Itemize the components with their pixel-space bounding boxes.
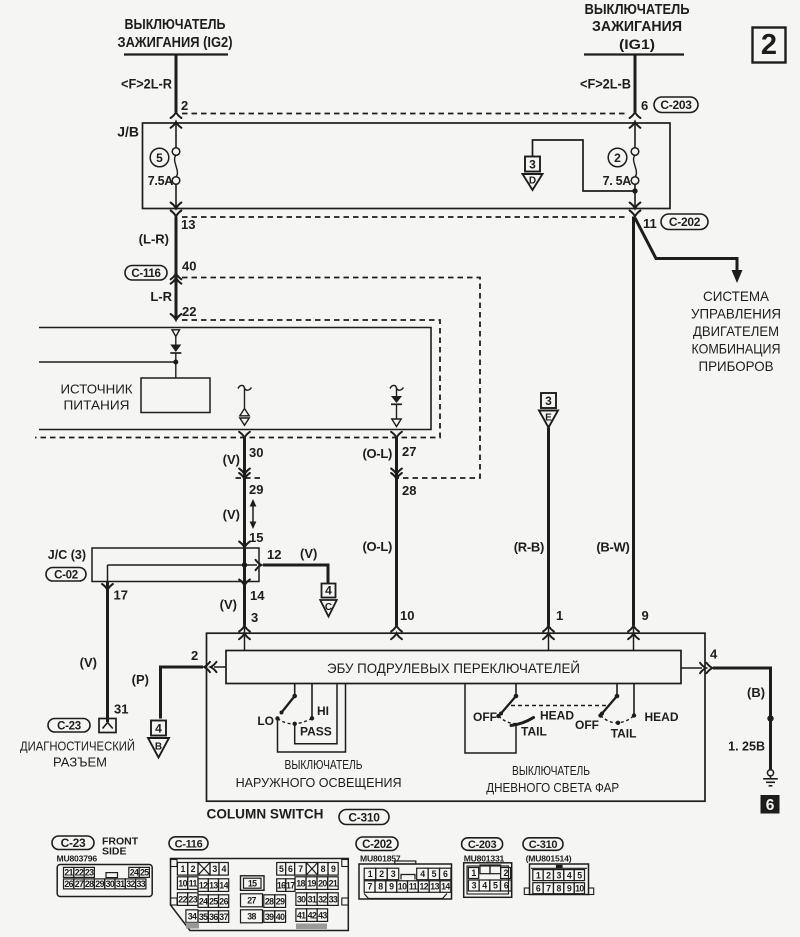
dimmer switch pivot (292, 684, 297, 699)
wire O-L pin27 down to column switch (395, 438, 398, 626)
svg-text:4: 4 (710, 647, 718, 662)
svg-text:33: 33 (329, 894, 338, 904)
label (B) (747, 685, 765, 700)
pin 15 label (249, 530, 263, 545)
connector C-203 tag top (654, 97, 698, 113)
arrow wire 30 start (239, 432, 250, 438)
svg-text:C-116: C-116 (131, 268, 160, 280)
svg-text:3: 3 (472, 881, 477, 891)
svg-text:33: 33 (137, 879, 146, 889)
arrow wire 27 start (391, 432, 402, 438)
connector C-116 tag (125, 266, 167, 281)
svg-text:2: 2 (181, 98, 188, 113)
pin 13 label (181, 217, 195, 232)
svg-text:PASS: PASS (300, 725, 332, 739)
svg-text:2: 2 (614, 151, 621, 165)
switch 1 dashed arc (499, 716, 534, 724)
wire L-R segment 13 to 40 (175, 217, 178, 321)
svg-text:13: 13 (209, 880, 218, 890)
connector C-203 body (464, 863, 512, 898)
pin 9 label (642, 608, 649, 623)
svg-text:(MU801514): (MU801514) (526, 854, 572, 864)
svg-text:<F>2L-R: <F>2L-R (121, 77, 172, 92)
svg-text:5: 5 (493, 881, 498, 891)
OFF contact 1 (496, 714, 500, 718)
svg-text:(R-B): (R-B) (514, 540, 544, 555)
junction dot ground wire (767, 715, 773, 721)
pin 30 label (249, 445, 263, 460)
svg-text:(B): (B) (747, 685, 765, 700)
pin 2 label (191, 648, 198, 663)
svg-text:<F>2L-B: <F>2L-B (580, 77, 631, 92)
label (V) on wire 12 (300, 546, 317, 561)
svg-text:4: 4 (222, 864, 227, 874)
internal output V terminal (238, 385, 252, 425)
svg-text:4: 4 (325, 583, 332, 597)
svg-text:ВЫКЛЮЧАТЕЛЬ: ВЫКЛЮЧАТЕЛЬ (585, 2, 690, 18)
pin 22 label (182, 304, 196, 319)
svg-text:32: 32 (126, 879, 135, 889)
fuse 5 element 7.5A (148, 123, 180, 209)
svg-text:15: 15 (248, 878, 257, 888)
svg-text:29: 29 (276, 896, 285, 906)
double arrow symbol (250, 499, 257, 529)
svg-text:14: 14 (219, 880, 228, 890)
svg-text:ЗАЖИГАНИЯ: ЗАЖИГАНИЯ (592, 19, 682, 35)
connector arrow open triangle on wire 22 (172, 330, 180, 337)
lighting switch 2 pivot (615, 684, 620, 699)
svg-text:29: 29 (249, 482, 263, 497)
svg-text:HEAD: HEAD (645, 710, 679, 724)
pin 4 label (710, 647, 718, 662)
svg-text:3: 3 (391, 869, 396, 879)
lighting switch label (236, 757, 402, 790)
svg-text:TAIL: TAIL (521, 725, 547, 739)
label (V) upper (223, 452, 240, 467)
svg-text:C-203: C-203 (660, 98, 692, 112)
svg-text:1: 1 (180, 864, 185, 874)
dashed connector line C-203 level (182, 113, 628, 115)
branch wire to arrow 3D (533, 140, 636, 191)
diagnostic connector label (20, 739, 135, 770)
svg-text:SIDE: SIDE (102, 846, 127, 858)
svg-text:9: 9 (389, 882, 394, 892)
svg-text:7: 7 (546, 883, 551, 893)
connector arrows at C-116 (171, 273, 182, 283)
page arrow 3-E (539, 393, 558, 428)
svg-text:30: 30 (106, 879, 115, 889)
svg-text:(V): (V) (223, 452, 240, 467)
svg-text:43: 43 (318, 910, 327, 920)
connector C-23 body (57, 865, 152, 897)
diagnostic connector symbol (99, 719, 116, 733)
svg-text:8: 8 (378, 882, 383, 892)
svg-text:L-R: L-R (150, 289, 172, 304)
power source internal box (141, 378, 210, 413)
page arrow 3-D (523, 157, 543, 191)
svg-text:15: 15 (249, 530, 263, 545)
J/C (3) label (48, 548, 86, 562)
ECU label (327, 659, 580, 676)
svg-text:28: 28 (265, 896, 274, 906)
branch wire to engine management system (635, 218, 743, 283)
diode D1 (170, 337, 181, 379)
svg-text:25: 25 (209, 896, 218, 906)
PASS return path (295, 684, 337, 744)
connector C-23 view tag (52, 836, 94, 850)
part number MU803796 (57, 854, 98, 864)
svg-text:24: 24 (130, 868, 139, 878)
pin 31 label (114, 702, 128, 717)
svg-text:34: 34 (188, 911, 197, 921)
svg-text:J/C (3): J/C (3) (48, 548, 86, 562)
svg-text:32: 32 (318, 894, 327, 904)
svg-text:1: 1 (536, 870, 541, 880)
dimmer switch lever (280, 696, 295, 715)
svg-text:(P): (P) (132, 672, 149, 687)
svg-text:30: 30 (249, 445, 263, 460)
svg-text:40: 40 (182, 259, 196, 274)
arrow wire 14 leaving J/C (239, 580, 250, 586)
svg-text:ДВИГАТЕЛЕМ: ДВИГАТЕЛЕМ (693, 324, 779, 339)
svg-text:HI: HI (317, 704, 329, 718)
svg-text:6: 6 (536, 883, 541, 893)
HEAD label 2 (645, 710, 679, 724)
connector C-202 view tag (356, 837, 398, 851)
pin 6 label (641, 98, 648, 113)
PASS label (300, 725, 332, 739)
svg-text:ВЫКЛЮЧАТЕЛЬ: ВЫКЛЮЧАТЕЛЬ (125, 17, 226, 33)
label (L-R) (139, 232, 169, 247)
svg-text:13: 13 (430, 882, 439, 892)
power source label (61, 382, 133, 413)
pin 11 label (643, 216, 657, 231)
part number MU801331 (464, 854, 505, 864)
svg-text:37: 37 (219, 912, 228, 922)
pin 10 label (400, 608, 414, 623)
svg-text:C-23: C-23 (57, 720, 81, 732)
lighting switch 2 lever (600, 696, 617, 716)
pin 29 label (249, 482, 263, 497)
svg-text:28: 28 (85, 879, 94, 889)
TAIL bridge thick arc (511, 718, 534, 726)
wire B-W down to pin 9 (632, 217, 635, 651)
svg-text:22: 22 (182, 304, 196, 319)
wire V pin14 to pin3 (243, 581, 246, 651)
svg-text:(V): (V) (223, 507, 240, 522)
svg-text:C-310: C-310 (348, 810, 380, 824)
svg-text:29: 29 (95, 879, 104, 889)
wire 2L-R from IG2 (121, 55, 176, 112)
svg-text:2: 2 (191, 648, 198, 663)
svg-text:36: 36 (209, 912, 218, 922)
OFF contact 2 (598, 713, 602, 717)
outer dashed harness box (182, 278, 480, 479)
svg-text:10: 10 (398, 882, 407, 892)
svg-text:31: 31 (308, 894, 317, 904)
svg-text:2: 2 (546, 870, 551, 880)
ground page ref 6 black box (761, 795, 780, 814)
svg-text:TAIL: TAIL (611, 727, 637, 741)
connector C-310 body (524, 864, 593, 895)
svg-text:23: 23 (85, 868, 94, 878)
svg-text:C-202: C-202 (669, 215, 701, 229)
pin 1 label (556, 608, 563, 623)
svg-text:5: 5 (156, 151, 163, 165)
svg-text:4: 4 (567, 870, 572, 880)
svg-text:25: 25 (140, 868, 149, 878)
inner dashed harness box (35, 320, 440, 438)
label L-R (150, 289, 172, 304)
svg-text:4: 4 (155, 721, 162, 735)
connector arrows wire 11 leaving J/B (630, 203, 641, 217)
svg-text:17: 17 (114, 588, 128, 603)
connector arrows 28 (391, 469, 402, 480)
svg-text:C: C (325, 602, 332, 613)
connector C-202 tag top (661, 214, 708, 230)
svg-text:COLUMN SWITCH: COLUMN SWITCH (207, 806, 324, 822)
svg-text:2: 2 (761, 29, 777, 61)
svg-text:E: E (545, 413, 552, 424)
svg-text:27: 27 (75, 879, 84, 889)
pin 2 label (181, 98, 188, 113)
svg-text:HEAD: HEAD (540, 709, 574, 723)
svg-text:11: 11 (643, 216, 657, 231)
wire size 1.25B (728, 740, 765, 754)
wire V pin17 down (106, 581, 109, 722)
connector arrows wire 13 leaving J/B (171, 203, 182, 217)
connector C-203 view tag (462, 838, 503, 851)
svg-text:21: 21 (329, 878, 338, 888)
junction dot below fuse 2 (632, 188, 637, 193)
pin 28 label (402, 483, 416, 498)
arrow wire 17 leaving J/C (102, 584, 113, 590)
svg-text:7.5A: 7.5A (148, 174, 173, 188)
svg-text:ЭБУ ПОДРУЛЕВЫХ ПЕРЕКЛЮЧАТЕЛЕЙ: ЭБУ ПОДРУЛЕВЫХ ПЕРЕКЛЮЧАТЕЛЕЙ (327, 659, 580, 676)
svg-text:39: 39 (265, 912, 274, 922)
svg-text:1: 1 (556, 608, 563, 623)
svg-text:11: 11 (409, 882, 418, 892)
svg-text:26: 26 (64, 879, 73, 889)
svg-text:ПИТАНИЯ: ПИТАНИЯ (64, 398, 130, 413)
svg-text:13: 13 (181, 217, 195, 232)
svg-text:3: 3 (212, 864, 217, 874)
svg-text:7: 7 (298, 864, 303, 874)
LO contact (275, 716, 279, 720)
svg-text:C-02: C-02 (54, 569, 78, 581)
svg-text:(V): (V) (300, 546, 317, 561)
svg-text:LO: LO (257, 714, 274, 728)
HI contact and stub (310, 684, 314, 721)
svg-text:10: 10 (575, 883, 584, 893)
lighting switch 1 pivot (514, 684, 519, 699)
svg-text:6: 6 (641, 98, 648, 113)
svg-text:40: 40 (276, 912, 285, 922)
connector arrows pin 10 (391, 626, 402, 640)
svg-text:6: 6 (766, 797, 775, 814)
svg-text:3: 3 (545, 394, 552, 408)
part number MU801857 (360, 854, 401, 864)
svg-text:21: 21 (64, 868, 73, 878)
svg-text:27: 27 (247, 896, 256, 906)
ECU box (226, 651, 681, 684)
dimmer dashed arc LO-PASS-HI (278, 718, 313, 724)
label (O-L) lower (362, 539, 392, 554)
engine management system text (691, 289, 781, 374)
svg-text:НАРУЖНОГО ОСВЕЩЕНИЯ: НАРУЖНОГО ОСВЕЩЕНИЯ (236, 775, 402, 790)
wire B exiting pin 4 (681, 663, 771, 770)
svg-text:10: 10 (400, 608, 414, 623)
svg-text:14: 14 (250, 588, 265, 603)
connector arrows 29 (239, 469, 250, 480)
svg-text:7. 5A: 7. 5A (603, 174, 632, 188)
page arrow 4-B (148, 721, 169, 758)
svg-text:26: 26 (219, 896, 228, 906)
svg-text:ДИАГНОСТИЧЕСКИЙ: ДИАГНОСТИЧЕСКИЙ (20, 739, 135, 754)
power source unit outline (39, 328, 431, 430)
connector C-116 view tag (169, 837, 208, 851)
svg-text:23: 23 (189, 894, 198, 904)
dashed connector line C-202 level (182, 216, 628, 218)
part number MU801514 (526, 854, 572, 864)
svg-text:12: 12 (420, 882, 429, 892)
ignition switch IG1 header (584, 2, 690, 55)
svg-text:1: 1 (368, 869, 373, 879)
ignition switch IG2 header (118, 17, 233, 55)
svg-text:ДНЕВНОГО СВЕТА ФАР: ДНЕВНОГО СВЕТА ФАР (486, 780, 619, 795)
pin 40 label (182, 259, 196, 274)
svg-text:38: 38 (247, 912, 256, 922)
connector arrows wire 2 into J/B (171, 112, 182, 128)
svg-text:D: D (529, 176, 536, 187)
svg-text:17: 17 (286, 880, 295, 890)
svg-text:19: 19 (307, 878, 316, 888)
svg-text:(L-R): (L-R) (139, 232, 169, 247)
svg-text:28: 28 (402, 483, 416, 498)
svg-text:КОМБИНАЦИЯ: КОМБИНАЦИЯ (692, 342, 781, 357)
wire R-B down to pin 1 (547, 428, 550, 651)
label (V) mid (223, 507, 240, 522)
svg-text:ЗАЖИГАНИЯ (IG2): ЗАЖИГАНИЯ (IG2) (118, 35, 233, 51)
svg-text:9: 9 (567, 883, 572, 893)
pin 3 label (251, 610, 258, 625)
svg-text:C-116: C-116 (175, 838, 203, 850)
svg-text:4: 4 (420, 869, 425, 879)
wire P entering pin 2 (161, 662, 227, 719)
label (V) wire 17 (80, 655, 97, 670)
connector C-02 tag (46, 568, 86, 582)
svg-text:12: 12 (199, 880, 208, 890)
svg-text:3: 3 (557, 870, 562, 880)
svg-text:6: 6 (288, 864, 293, 874)
svg-text:(IG1): (IG1) (619, 36, 655, 52)
label (B-W) (596, 540, 629, 555)
svg-text:7: 7 (367, 882, 372, 892)
TAIL label 2 (611, 727, 637, 741)
connector arrows pin 9 (628, 626, 639, 640)
lighting switch 1 lever (499, 696, 516, 716)
connector C-202 body (359, 861, 452, 899)
HEAD contact 2 and stub (632, 684, 636, 718)
svg-text:ВЫКЛЮЧАТЕЛЬ: ВЫКЛЮЧАТЕЛЬ (512, 763, 590, 778)
fuse 2 circle (608, 148, 627, 167)
svg-text:OFF: OFF (473, 710, 497, 724)
svg-text:8: 8 (557, 883, 562, 893)
svg-text:24: 24 (199, 896, 208, 906)
label (O-L) upper (362, 446, 392, 461)
COLUMN SWITCH caption (207, 806, 324, 822)
svg-text:8: 8 (321, 864, 326, 874)
TAIL contact 2 (616, 721, 620, 725)
svg-text:OFF: OFF (575, 718, 599, 732)
internal J/C wire (108, 565, 245, 581)
svg-text:14: 14 (441, 882, 450, 892)
OFF label 2 (575, 718, 599, 732)
svg-text:MU801331: MU801331 (464, 854, 505, 864)
page number 2 (753, 28, 786, 63)
mechanical link dashed (511, 705, 610, 707)
label (R-B) (514, 540, 544, 555)
svg-text:УПРАВЛЕНИЯ: УПРАВЛЕНИЯ (691, 307, 781, 322)
svg-text:30: 30 (297, 894, 306, 904)
pin 14 label (250, 588, 265, 603)
svg-text:C-23: C-23 (61, 836, 86, 850)
wire V pin30 to J/C (243, 438, 246, 547)
column switch outer box (207, 633, 706, 801)
svg-text:9: 9 (642, 608, 649, 623)
junction dot power source (173, 360, 178, 365)
svg-text:2: 2 (191, 864, 196, 874)
arrow into J/C (239, 542, 250, 548)
ground symbol (763, 770, 778, 786)
svg-text:11: 11 (189, 878, 198, 888)
svg-text:(V): (V) (220, 597, 237, 612)
svg-text:5: 5 (577, 870, 582, 880)
connector arrows wire 6 into J/B (630, 112, 641, 128)
svg-text:MU803796: MU803796 (57, 854, 98, 864)
switch 2 dashed arc (601, 716, 635, 723)
svg-text:ПРИБОРОВ: ПРИБОРОВ (699, 359, 774, 374)
svg-text:3: 3 (529, 157, 536, 171)
svg-text:2: 2 (503, 868, 508, 878)
junction block J/B box (117, 123, 670, 209)
daytime running light switch label (486, 763, 619, 795)
svg-text:C-310: C-310 (529, 839, 558, 851)
wire 2L-B from IG1 (580, 55, 635, 112)
FRONT SIDE note (102, 836, 139, 858)
HEAD label 1 (540, 709, 574, 723)
connector C-310 view tag (523, 838, 563, 851)
svg-text:C-202: C-202 (362, 839, 392, 851)
svg-text:35: 35 (199, 912, 208, 922)
svg-text:10: 10 (178, 878, 187, 888)
svg-text:ВЫКЛЮЧАТЕЛЬ: ВЫКЛЮЧАТЕЛЬ (285, 757, 363, 772)
svg-text:B: B (155, 742, 162, 753)
svg-text:ИСТОЧНИК: ИСТОЧНИК (61, 382, 133, 397)
TAIL label 1 (521, 725, 547, 739)
svg-text:31: 31 (116, 879, 125, 889)
connector arrows pin 3 (239, 626, 250, 640)
OFF label 1 (473, 710, 497, 724)
svg-text:42: 42 (308, 910, 317, 920)
svg-text:5: 5 (279, 864, 284, 874)
svg-text:(V): (V) (80, 655, 97, 670)
junction dot in J/C (242, 562, 247, 567)
connector C-23 tag (48, 719, 90, 733)
svg-text:31: 31 (114, 702, 128, 717)
svg-text:18: 18 (296, 878, 305, 888)
internal output O-L terminal with diode D2 (390, 385, 404, 426)
